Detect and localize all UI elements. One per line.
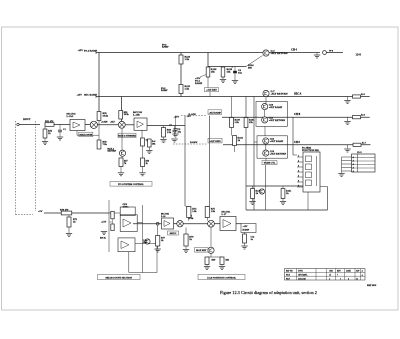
svg-text:1.5k: 1.5k: [167, 131, 172, 134]
svg-text:INPUT: INPUT: [23, 118, 31, 121]
svg-text:REV: REV: [337, 271, 341, 273]
svg-text:MAX-2 SUMMER: MAX-2 SUMMER: [118, 135, 136, 138]
svg-text:DATE: DATE: [346, 270, 352, 273]
svg-text:7: 7: [298, 185, 299, 187]
svg-text:2: 2: [329, 279, 330, 281]
svg-text:+SLT OFFS: +SLT OFFS: [209, 141, 221, 143]
svg-text:J2-5: J2-5: [357, 151, 362, 154]
svg-text:6: 6: [298, 180, 299, 182]
svg-text:+SLT RETURN: +SLT RETURN: [271, 93, 288, 96]
svg-text:1.5k: 1.5k: [235, 121, 240, 124]
svg-text:+15V: +15V: [174, 116, 180, 119]
svg-text:SEC RAMP: SEC RAMP: [84, 94, 97, 97]
svg-text:RAMP: RAMP: [195, 82, 203, 85]
svg-text:7.5k: 7.5k: [103, 143, 108, 146]
svg-text:1.5k: 1.5k: [185, 88, 190, 91]
svg-text:10.5k: 10.5k: [124, 114, 130, 116]
svg-text:R70 470: R70 470: [60, 209, 69, 212]
svg-text:5: 5: [298, 175, 299, 177]
svg-text:MAX-2 SUM: MAX-2 SUM: [80, 134, 92, 137]
svg-text:REF NO: REF NO: [286, 271, 293, 273]
svg-text:+SLT RET: +SLT RET: [206, 90, 217, 92]
svg-text:OPT/AMPL: OPT/AMPL: [298, 274, 308, 277]
svg-text:3: 3: [298, 165, 299, 167]
svg-text:PF-2 SYSTEM CONTROL: PF-2 SYSTEM CONTROL: [118, 184, 144, 186]
svg-text:L-15A: L-15A: [67, 115, 74, 118]
svg-text:12: 12: [356, 279, 358, 281]
svg-text:15: 15: [329, 275, 331, 277]
svg-text:15u: 15u: [238, 72, 243, 75]
svg-text:PS-2 RAMP: PS-2 RAMP: [84, 50, 98, 53]
svg-text:+SLT RAMP: +SLT RAMP: [270, 140, 284, 143]
svg-text:+15V: +15V: [243, 226, 248, 228]
svg-text:1: 1: [298, 155, 299, 157]
svg-text:FUNCTION SEL: FUNCTION SEL: [302, 150, 320, 152]
svg-text:15k: 15k: [227, 71, 232, 74]
svg-text:+5V: +5V: [38, 210, 43, 213]
svg-text:MEAS/COUNT SECTION: MEAS/COUNT SECTION: [106, 276, 133, 279]
svg-text:RAMP: RAMP: [162, 46, 169, 49]
svg-text:+SLT RAMP: +SLT RAMP: [269, 106, 283, 109]
svg-text:+SLT RETURN: +SLT RETURN: [271, 52, 288, 55]
svg-text:R81: R81: [226, 260, 230, 262]
svg-text:TRIM CTL: TRIM CTL: [264, 163, 276, 165]
svg-text:7: 7: [337, 275, 338, 277]
svg-text:15k: 15k: [211, 71, 216, 74]
svg-text:DAC/AM: DAC/AM: [298, 278, 306, 281]
svg-text:+SLT RETURN: +SLT RETURN: [270, 153, 287, 156]
svg-text:+SLT: +SLT: [110, 122, 115, 124]
svg-text:CH 4: CH 4: [291, 49, 298, 52]
svg-text:RAMP: RAMP: [243, 229, 250, 232]
svg-text:13-8: 13-8: [356, 52, 362, 56]
svg-text:4: 4: [348, 279, 349, 281]
svg-text:2: 2: [298, 160, 299, 162]
svg-text:+5V: +5V: [187, 115, 192, 118]
svg-text:MAX RET: MAX RET: [196, 249, 207, 252]
svg-text:MAX-2: MAX-2: [170, 232, 176, 235]
svg-text:+15V: +15V: [101, 222, 107, 224]
svg-text:RAMP: RAMP: [161, 89, 168, 92]
svg-text:+15V: +15V: [77, 94, 83, 97]
svg-text:10.5k: 10.5k: [103, 115, 109, 118]
svg-text:D-2/4W: D-2/4W: [190, 142, 198, 144]
svg-text:R51 470: R51 470: [45, 120, 54, 123]
svg-text:JA-B POSITION CONTROL: JA-B POSITION CONTROL: [207, 276, 237, 279]
svg-text:1.5k: 1.5k: [185, 58, 190, 61]
svg-text:L-15B: L-15B: [133, 114, 140, 117]
svg-text:RETURN: RETURN: [108, 151, 117, 153]
svg-text:4: 4: [298, 170, 299, 172]
svg-text:+SLT RETURN: +SLT RETURN: [269, 119, 286, 122]
svg-text:1.5k: 1.5k: [211, 210, 216, 213]
svg-text:SEC A: SEC A: [294, 93, 302, 96]
svg-text:1: 1: [340, 279, 341, 281]
svg-text:REF NO8: REF NO8: [367, 285, 377, 287]
svg-text:R9 1k: R9 1k: [100, 238, 107, 240]
svg-text:+15V: +15V: [78, 49, 84, 52]
svg-text:CH B: CH B: [294, 113, 301, 116]
svg-text:+GAIN: +GAIN: [101, 121, 108, 124]
svg-text:APP: APP: [356, 270, 359, 273]
svg-text:CH 8: CH 8: [294, 141, 301, 144]
svg-text:PS15: PS15: [286, 275, 290, 277]
svg-text:CHG: CHG: [329, 271, 334, 273]
svg-text:+SLT RAMP: +SLT RAMP: [209, 111, 222, 114]
svg-text:1.5k: 1.5k: [192, 210, 197, 213]
svg-text:PS17: PS17: [286, 279, 290, 281]
svg-text:15k: 15k: [249, 121, 253, 124]
svg-text:L-17: L-17: [222, 213, 228, 216]
